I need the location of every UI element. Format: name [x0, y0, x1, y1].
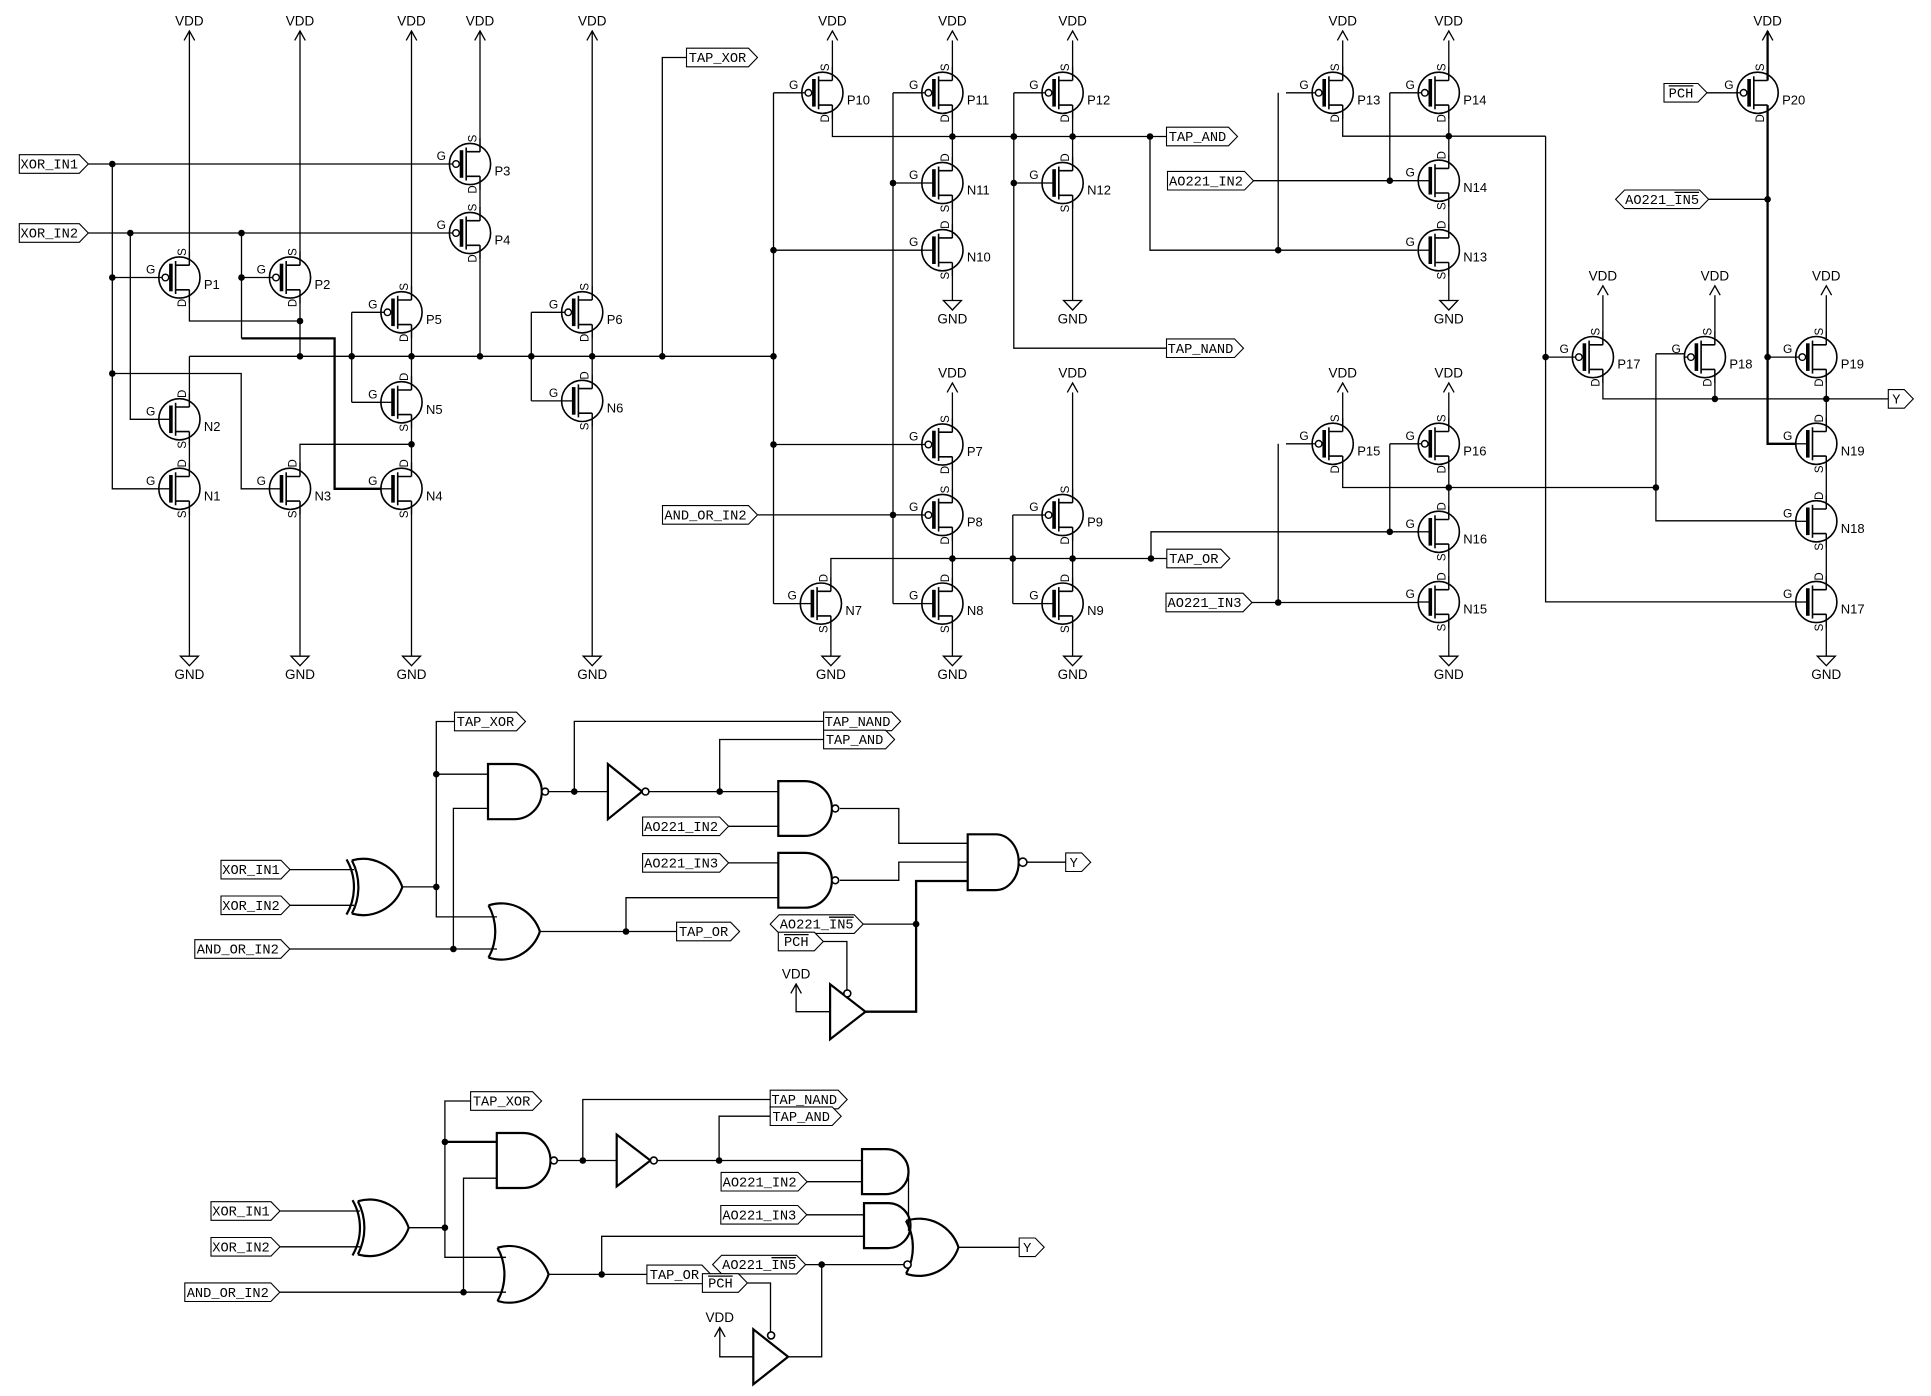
svg-text:D: D: [177, 299, 189, 307]
svg-text:S: S: [1814, 327, 1826, 335]
svg-text:G: G: [1560, 342, 1569, 356]
transistor P1 (PMOS): [146, 248, 220, 307]
svg-text:D: D: [1060, 536, 1072, 544]
wire NAND3 output riser to P17 N17 gates: [1542, 136, 1795, 602]
wire AO221_IN3 to AND2 A (bot): [807, 1214, 864, 1216]
svg-text:D: D: [580, 334, 592, 342]
wire P5 drain to N5 drain: [411, 325, 413, 390]
transistor N9 (NMOS): [1029, 574, 1103, 633]
svg-text:S: S: [1060, 63, 1072, 71]
wire VDD#16 to P19 source: [1825, 295, 1827, 345]
power symbol GND#10: [1058, 656, 1088, 682]
svg-text:S: S: [1330, 63, 1342, 71]
wire AO221_IN2 wire to N14 gate: [1253, 177, 1418, 184]
svg-text:AO221_IN5: AO221_IN5: [780, 919, 854, 934]
wire NAND1 input A bold stub (bot): [445, 1141, 497, 1143]
wire NAND1 output to inverter (mid): [548, 788, 608, 795]
svg-text:D: D: [177, 459, 189, 467]
svg-text:GND: GND: [174, 667, 204, 682]
svg-text:AO221_IN2: AO221_IN2: [1169, 175, 1243, 190]
power symbol VDD#9: [1328, 14, 1357, 41]
net label TAP_XOR (mid): [455, 712, 526, 731]
transistor N1 (NMOS): [146, 459, 220, 518]
wire NAND1 input B wire (mid): [450, 808, 488, 952]
wire TAP_XOR net riser (mid): [433, 722, 497, 917]
svg-text:P12: P12: [1087, 92, 1110, 107]
NAND gate NAND2 (mid): [778, 781, 838, 836]
transistor P16 (PMOS): [1405, 414, 1486, 473]
svg-text:D: D: [1060, 114, 1072, 122]
power symbol GND#2: [285, 656, 315, 682]
svg-text:PCH: PCH: [1669, 87, 1694, 102]
svg-text:G: G: [549, 297, 558, 311]
svg-text:G: G: [1405, 587, 1414, 601]
wire VDD wire to INV2 (bot): [720, 1328, 754, 1357]
svg-text:S: S: [1436, 202, 1448, 210]
power symbol VDD#2: [286, 14, 315, 41]
wire N3 drain link to N4 drain column: [300, 441, 415, 476]
wire N15 source to GND#11: [1448, 614, 1450, 656]
svg-text:D: D: [288, 299, 300, 307]
svg-text:S: S: [1330, 414, 1342, 422]
wire VDD#18 to P16 source: [1448, 392, 1450, 431]
transistor P20 (PMOS): [1724, 63, 1805, 122]
svg-text:D: D: [1436, 114, 1448, 122]
svg-text:S: S: [1060, 204, 1072, 212]
svg-text:AO221_IN2: AO221_IN2: [644, 821, 718, 836]
svg-text:G: G: [146, 474, 155, 488]
wire VDD#1 column to P1 source: [188, 31, 190, 265]
transistor P2 (PMOS): [257, 248, 331, 307]
wire P16 gate riser: [1389, 444, 1391, 532]
power symbol VDD#1: [175, 14, 204, 41]
svg-text:P13: P13: [1357, 92, 1380, 107]
svg-text:G: G: [1029, 168, 1038, 182]
wire TAP_OR branch to right block: [1151, 529, 1418, 559]
net label PCH (bot): [702, 1274, 747, 1293]
svg-text:D: D: [1436, 221, 1448, 229]
NAND gate NAND1 (bot): [497, 1133, 558, 1188]
svg-text:GND: GND: [577, 667, 607, 682]
wire AO221_IN5 wire to P20 column: [1709, 198, 1768, 200]
svg-text:D: D: [1436, 465, 1448, 473]
svg-text:S: S: [1436, 63, 1448, 71]
wire XOR_IN2 riser to P2 gate: [238, 233, 245, 338]
svg-text:S: S: [1060, 485, 1072, 493]
svg-text:G: G: [788, 589, 797, 603]
svg-text:D: D: [940, 536, 952, 544]
wire AO221_IN3 wire to N15 gate: [1252, 599, 1418, 606]
svg-text:GND: GND: [397, 667, 427, 682]
svg-text:S: S: [940, 272, 952, 280]
wire node A horizontal: [189, 353, 773, 360]
wire TAP_AND branch to right block: [1150, 137, 1417, 254]
wire OR1 output to TAP_OR (bot): [549, 1271, 647, 1278]
svg-text:XOR_IN2: XOR_IN2: [212, 1241, 270, 1256]
svg-text:G: G: [257, 474, 266, 488]
wire TAP_XOR riser: [662, 58, 686, 357]
net label TAP_OR (mid): [677, 922, 740, 941]
transistor N8 (NMOS): [909, 574, 983, 633]
wire P13 gate stub: [1286, 92, 1312, 94]
transistor P10 (PMOS): [789, 63, 870, 122]
wire TAP_NAND riser (bot): [583, 1100, 770, 1161]
svg-text:AO221_IN3: AO221_IN3: [722, 1209, 796, 1224]
wire XOR_IN1 to XOR input (bot): [280, 1210, 360, 1212]
transistor P11 (PMOS): [909, 63, 989, 122]
wire P8 drain to N8 drain: [951, 527, 953, 591]
svg-text:S: S: [1436, 553, 1448, 561]
svg-text:D: D: [468, 254, 480, 262]
net label AO221_IN3 (mid): [643, 854, 729, 873]
svg-text:N12: N12: [1087, 183, 1111, 198]
power symbol VDD#8: [1058, 14, 1087, 41]
wire P11 drain to N11 drain: [951, 105, 953, 171]
svg-text:D: D: [1702, 378, 1714, 386]
power symbol VDD (bot): [706, 1310, 735, 1337]
svg-text:G: G: [368, 387, 377, 401]
transistor P15 (PMOS): [1299, 414, 1380, 473]
power symbol GND#11: [1434, 656, 1464, 682]
wire VDD#6 to P10 source: [831, 40, 833, 80]
net label TAP_AND (bot): [770, 1107, 841, 1126]
net label AO221_IN2 (mid): [643, 817, 729, 836]
wire N1 source to GND#1: [188, 501, 190, 656]
wire N6 source to GND#4: [591, 413, 593, 656]
wire INV2 output riser (bot): [788, 1265, 822, 1357]
svg-text:TAP_OR: TAP_OR: [650, 1269, 699, 1284]
transistor N7 (NMOS): [788, 574, 862, 633]
power symbol VDD#17: [1328, 366, 1357, 393]
svg-text:D: D: [1814, 492, 1826, 500]
wire P11 gate stub: [893, 92, 922, 94]
wire P7 gate branch: [774, 444, 922, 446]
svg-text:AND_OR_IN2: AND_OR_IN2: [664, 510, 746, 525]
svg-text:G: G: [549, 386, 558, 400]
svg-text:N17: N17: [1841, 602, 1865, 617]
wire NAND2 output route (mid): [840, 809, 968, 844]
wire N11 gate stub: [893, 182, 922, 184]
svg-text:D: D: [940, 114, 952, 122]
wire AND_OR_IN2 wire (mid): [290, 948, 497, 950]
svg-text:S: S: [940, 63, 952, 71]
net label Y (bot): [1019, 1238, 1044, 1257]
wire N17 source to GND#12: [1825, 614, 1827, 656]
svg-text:N2: N2: [204, 419, 221, 434]
svg-text:N16: N16: [1463, 531, 1487, 546]
wire stage4 riser to P18 N18 gates: [1656, 354, 1796, 521]
svg-text:TAP_NAND: TAP_NAND: [1168, 343, 1234, 358]
wire stage4 output net: [1343, 456, 1660, 491]
AND gate AND2 (bot): [864, 1203, 911, 1248]
wire P19 drain to N19 drain: [1825, 369, 1827, 431]
svg-text:G: G: [1724, 78, 1733, 92]
svg-text:S: S: [468, 203, 480, 211]
wire VDD#3 column to P5 source: [411, 31, 413, 300]
wire NAND3 input B wire (mid): [626, 898, 778, 932]
transistor N6 (NMOS): [549, 371, 623, 430]
wire N5 gate stub: [352, 401, 381, 403]
power symbol VDD#14: [1589, 268, 1618, 295]
svg-text:N14: N14: [1463, 180, 1487, 195]
wire TAP_AND riser (mid): [720, 740, 824, 792]
svg-text:P7: P7: [967, 444, 983, 459]
svg-text:G: G: [1029, 589, 1038, 603]
svg-text:XOR_IN2: XOR_IN2: [21, 228, 79, 243]
wire XOR_IN1 vertical riser: [109, 164, 159, 489]
svg-text:Y: Y: [1070, 857, 1078, 872]
svg-text:PCH: PCH: [784, 936, 809, 951]
wire XOR2 output (bot): [409, 1227, 445, 1229]
power symbol VDD#3: [397, 14, 426, 41]
svg-text:G: G: [789, 78, 798, 92]
wire P6 gate stub: [531, 311, 561, 313]
wire P12 drain to N12 drain: [1072, 105, 1074, 171]
wire PCH wire to inverter (mid): [823, 942, 847, 990]
net label Y: [1888, 390, 1913, 409]
svg-text:P6: P6: [607, 312, 623, 327]
svg-text:P17: P17: [1617, 357, 1640, 372]
wire VDD#15 to P18 source: [1714, 295, 1716, 345]
svg-text:G: G: [909, 430, 918, 444]
wire P6 N6 gate riser: [530, 312, 532, 401]
svg-text:VDD: VDD: [938, 14, 967, 29]
svg-text:TAP_XOR: TAP_XOR: [473, 1096, 531, 1111]
wire TAP_AND net horizontal: [832, 105, 1166, 140]
svg-text:TAP_XOR: TAP_XOR: [689, 52, 747, 67]
svg-text:P14: P14: [1463, 92, 1486, 107]
svg-text:N6: N6: [607, 400, 624, 415]
NAND gate NAND3 (mid): [778, 853, 838, 908]
wire TAP_OR net horizontal: [831, 555, 1167, 591]
wire OR1 output to TAP_OR (mid): [540, 928, 677, 935]
svg-text:G: G: [1299, 429, 1308, 443]
power symbol VDD#6: [818, 14, 847, 41]
svg-text:S: S: [940, 625, 952, 633]
wire P9 gate stub: [1013, 514, 1042, 516]
svg-text:G: G: [1029, 500, 1038, 514]
net label TAP_NAND: [1167, 339, 1244, 358]
svg-text:D: D: [1060, 574, 1072, 582]
svg-text:P20: P20: [1782, 92, 1805, 107]
svg-text:S: S: [1814, 465, 1826, 473]
transistor P4 (PMOS): [437, 203, 511, 262]
net label XOR_IN1 (bot): [211, 1202, 280, 1221]
svg-text:G: G: [1783, 342, 1792, 356]
power symbol VDD#13: [1058, 366, 1087, 393]
svg-text:P9: P9: [1087, 515, 1103, 530]
svg-text:XOR_IN1: XOR_IN1: [212, 1206, 270, 1221]
svg-text:N18: N18: [1841, 521, 1865, 536]
wire TAP_NAND riser (mid): [574, 721, 823, 791]
net label TAP_NAND (mid): [824, 712, 901, 731]
svg-text:P19: P19: [1841, 357, 1864, 372]
svg-text:G: G: [909, 589, 918, 603]
net label TAP_XOR: [687, 48, 758, 67]
svg-text:VDD: VDD: [782, 967, 811, 982]
svg-text:D: D: [580, 371, 592, 379]
svg-text:VDD: VDD: [1328, 14, 1357, 29]
wire node A stub to N2 drain: [188, 356, 190, 407]
svg-text:S: S: [940, 485, 952, 493]
net label PCH: [1664, 84, 1707, 103]
wire P17 gate stub: [1546, 356, 1573, 358]
svg-text:GND: GND: [1058, 312, 1088, 327]
svg-text:G: G: [909, 235, 918, 249]
svg-text:D: D: [940, 574, 952, 582]
wire AND1 output to OR2 (bot): [908, 1172, 910, 1231]
wire P14 gate stub: [1390, 92, 1418, 94]
wire N10 gate branch: [774, 249, 922, 251]
svg-text:D: D: [177, 390, 189, 398]
svg-text:GND: GND: [816, 667, 846, 682]
svg-text:N7: N7: [845, 603, 862, 618]
svg-text:D: D: [1436, 572, 1448, 580]
power symbol GND#4: [577, 656, 607, 682]
wire P14 gate riser: [1389, 93, 1391, 181]
wire P10 gate stub: [774, 92, 802, 94]
svg-text:D: D: [399, 334, 411, 342]
svg-text:D: D: [288, 459, 300, 467]
transistor N14 (NMOS): [1405, 151, 1487, 210]
svg-text:VDD: VDD: [938, 366, 967, 381]
svg-text:G: G: [437, 218, 446, 232]
svg-text:D: D: [940, 221, 952, 229]
wire Y output net: [1603, 369, 1888, 402]
svg-text:S: S: [399, 510, 411, 518]
wire AO221_IN3 to NAND3 A (mid): [729, 862, 779, 864]
svg-text:VDD: VDD: [1328, 366, 1357, 381]
transistor N18 (NMOS): [1783, 492, 1865, 551]
svg-text:VDD: VDD: [1812, 268, 1841, 283]
svg-text:G: G: [1783, 587, 1792, 601]
wire P16 gate stub: [1390, 443, 1418, 445]
wire N14 source to N13 drain: [1448, 193, 1450, 238]
wire P2 gate stub: [242, 277, 270, 279]
svg-text:S: S: [1436, 623, 1448, 631]
wire N3 source to GND#2: [299, 501, 301, 656]
svg-text:G: G: [1783, 506, 1792, 520]
svg-text:XOR_IN1: XOR_IN1: [222, 864, 280, 879]
svg-text:S: S: [1814, 543, 1826, 551]
XOR gate XOR1: [347, 859, 403, 915]
wire NAND3 output route (mid): [840, 862, 968, 880]
wire AO221_IN2 to NAND2 B (mid): [729, 825, 779, 827]
net label Y (mid): [1066, 853, 1091, 872]
svg-text:D: D: [1814, 572, 1826, 580]
wire inverter output to NAND2 (mid): [649, 788, 778, 795]
transistor P14 (PMOS): [1405, 63, 1486, 122]
net label XOR_IN1: [19, 155, 88, 174]
svg-text:S: S: [177, 510, 189, 518]
net label TAP_AND (mid): [824, 730, 895, 749]
svg-text:S: S: [1590, 327, 1602, 335]
transistor N10 (NMOS): [909, 221, 991, 280]
net label AND_OR_IN2 (mid): [195, 940, 290, 959]
net label AND_OR_IN2 (bot): [185, 1283, 280, 1302]
svg-text:TAP_AND: TAP_AND: [826, 734, 884, 749]
svg-text:Y: Y: [1892, 394, 1900, 409]
wire P13 gate riser: [1277, 93, 1279, 250]
svg-text:S: S: [177, 248, 189, 256]
wire VDD#11 to P20 source (bold): [1766, 31, 1768, 81]
svg-text:S: S: [940, 204, 952, 212]
wire VDD#8 to P12 source: [1072, 40, 1074, 80]
svg-text:N4: N4: [426, 488, 443, 503]
svg-text:S: S: [580, 422, 592, 430]
wire inverter output to AND1 (bot): [657, 1157, 862, 1164]
transistor N11 (NMOS): [909, 153, 990, 212]
power symbol GND#5: [937, 301, 967, 327]
svg-text:G: G: [368, 474, 377, 488]
svg-text:D: D: [1590, 378, 1602, 386]
transistor N15 (NMOS): [1405, 572, 1487, 631]
OR gate OR2 (bot): [904, 1219, 959, 1276]
wire VDD#4 column to P3 source: [479, 31, 481, 152]
svg-text:TAP_NAND: TAP_NAND: [825, 716, 891, 731]
svg-text:G: G: [1405, 78, 1414, 92]
wire XOR_IN2 to XOR input (mid): [290, 904, 354, 906]
wire P4 drain to node A: [479, 245, 481, 356]
wire N8 source to GND#9: [951, 616, 953, 656]
svg-text:VDD: VDD: [1435, 14, 1464, 29]
svg-text:P4: P4: [495, 233, 511, 248]
wire P18 drain stub: [1714, 369, 1716, 399]
net label PCH (mid): [778, 932, 823, 951]
svg-text:N3: N3: [315, 488, 332, 503]
wire P18 gate stub: [1656, 353, 1684, 355]
wire XOR_IN1 to XOR input (mid): [290, 869, 354, 871]
wire N9 source to GND#10: [1072, 616, 1074, 656]
svg-text:VDD: VDD: [578, 14, 607, 29]
wire N5 source to N4 drain: [411, 415, 413, 477]
svg-text:S: S: [1702, 327, 1714, 335]
svg-text:G: G: [1405, 429, 1414, 443]
wire NAND4 output to Y (mid): [1027, 861, 1066, 863]
wire TAP_AND riser (bot): [719, 1116, 770, 1160]
svg-text:D: D: [1814, 414, 1826, 422]
svg-text:S: S: [940, 415, 952, 423]
svg-text:P10: P10: [847, 92, 870, 107]
wire N16 source to N15 drain: [1448, 544, 1450, 590]
svg-text:S: S: [1060, 625, 1072, 633]
wire XOR_IN2 bold route to N4 gate: [242, 338, 381, 488]
power symbol GND#8: [816, 656, 846, 682]
power symbol VDD#7: [938, 14, 967, 41]
svg-text:G: G: [1299, 78, 1308, 92]
wire TAP_XOR net riser (bot): [442, 1101, 506, 1257]
svg-text:G: G: [1405, 517, 1414, 531]
transistor P8 (PMOS): [909, 485, 983, 544]
svg-text:VDD: VDD: [466, 14, 495, 29]
net label AND_OR_IN2: [663, 506, 758, 525]
wire PCH wire to inverter (bot): [747, 1283, 770, 1332]
wire P5 N5 gate riser: [351, 312, 353, 402]
wire AND2 input B riser (bot): [602, 1236, 864, 1274]
svg-text:VDD: VDD: [1058, 366, 1087, 381]
net label TAP_OR (bot): [647, 1265, 711, 1284]
wire VDD#9 to P13 source: [1342, 40, 1344, 80]
transistor P12 (PMOS): [1029, 63, 1110, 122]
wire VDD wire to INV2 (mid): [796, 984, 830, 1012]
svg-text:N19: N19: [1841, 443, 1865, 458]
svg-text:P16: P16: [1463, 443, 1486, 458]
net label TAP_NAND (bot): [770, 1090, 847, 1109]
wire TAP_NAND riser (P12 N12 gates): [1011, 93, 1167, 348]
svg-text:XOR_IN1: XOR_IN1: [21, 159, 79, 174]
transistor N3 (NMOS): [257, 459, 331, 518]
svg-text:G: G: [1405, 235, 1414, 249]
